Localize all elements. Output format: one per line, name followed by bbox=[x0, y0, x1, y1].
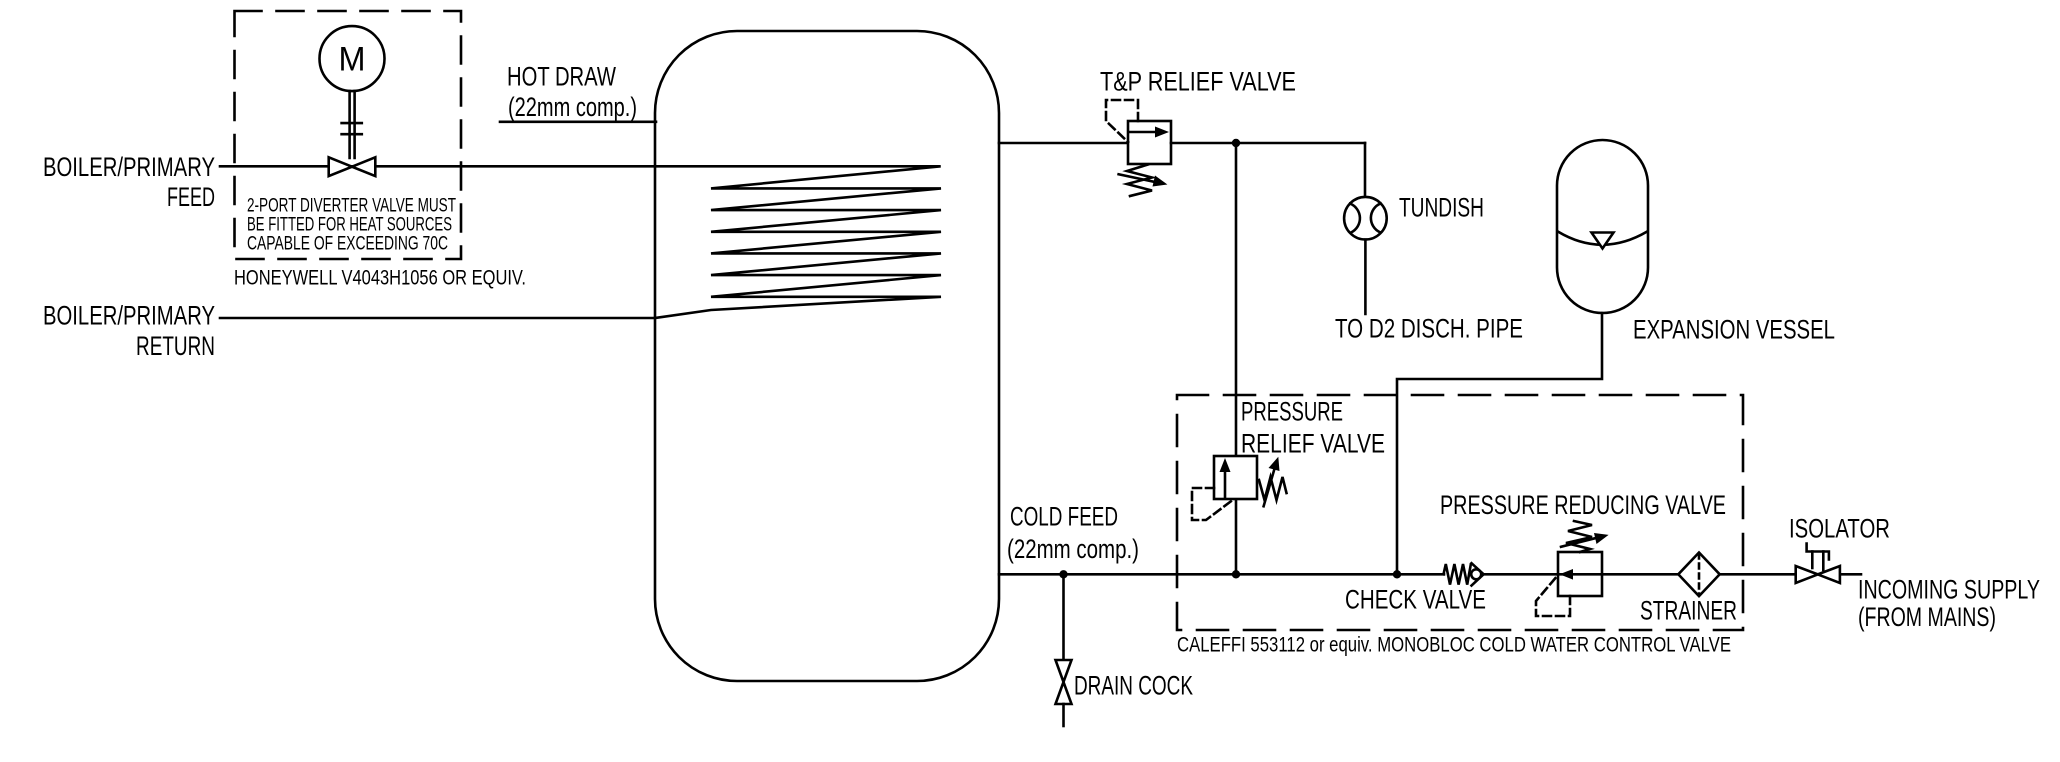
svg-text:BOILER/PRIMARY: BOILER/PRIMARY bbox=[43, 301, 215, 331]
dashed enclosure: CALEFFI monobloc control valve group bbox=[1177, 395, 1743, 630]
svg-text:ISOLATOR: ISOLATOR bbox=[1789, 514, 1890, 544]
svg-text:HONEYWELL V4043H1056 OR EQUIV.: HONEYWELL V4043H1056 OR EQUIV. bbox=[234, 266, 526, 290]
svg-text:2-PORT DIVERTER VALVE MUST: 2-PORT DIVERTER VALVE MUST bbox=[247, 196, 456, 217]
coil heat exchanger inside cylinder bbox=[655, 166, 941, 318]
isolator stem bbox=[1811, 552, 1814, 569]
svg-text:TUNDISH: TUNDISH bbox=[1399, 193, 1484, 223]
T&P spring below bbox=[1127, 165, 1152, 197]
wire: boiler/primary feed line bbox=[220, 165, 655, 168]
PRDV pilot dashed bbox=[1536, 575, 1570, 616]
expansion vessel capsule bbox=[1557, 140, 1648, 313]
wire: boiler/primary return line bbox=[220, 317, 655, 320]
PRV adjuster arrow bbox=[1264, 467, 1275, 506]
strainer diamond bbox=[1678, 553, 1719, 597]
wire: vessel down pipe bbox=[1397, 313, 1602, 574]
hot draw label underline bbox=[500, 121, 656, 124]
svg-text:INCOMING SUPPLY: INCOMING SUPPLY bbox=[1858, 575, 2040, 605]
svg-text:(22mm comp.): (22mm comp.) bbox=[1007, 534, 1139, 564]
svg-text:(FROM MAINS): (FROM MAINS) bbox=[1858, 602, 1996, 632]
check valve seat chevron bbox=[1472, 563, 1484, 585]
svg-text:RETURN: RETURN bbox=[136, 331, 215, 361]
drain cock bowtie vertical bbox=[1056, 660, 1072, 704]
diverter valve bowtie bbox=[329, 157, 376, 176]
PRDV adjuster arrow bbox=[1561, 538, 1598, 547]
valve stem double line bbox=[348, 91, 351, 158]
pressure relief valve box bbox=[1214, 456, 1257, 499]
svg-text:BE FITTED FOR HEAT SOURCES: BE FITTED FOR HEAT SOURCES bbox=[247, 215, 452, 236]
svg-text:CHECK VALVE: CHECK VALVE bbox=[1345, 585, 1486, 615]
svg-text:FEED: FEED bbox=[167, 182, 215, 212]
svg-text:PRESSURE REDUCING VALVE: PRESSURE REDUCING VALVE bbox=[1440, 490, 1726, 520]
svg-text:TO D2 DISCH. PIPE: TO D2 DISCH. PIPE bbox=[1335, 314, 1523, 344]
check valve spring bbox=[1444, 564, 1471, 585]
strainer screen dashed bbox=[1698, 554, 1701, 596]
wire: hot outlet to T&P relief valve bbox=[999, 142, 1128, 145]
svg-text:(22mm comp.): (22mm comp.) bbox=[508, 92, 637, 122]
PRV pilot dashed bbox=[1192, 488, 1234, 520]
wire: cold feed main line bbox=[999, 573, 1444, 576]
T&P arrow inside bbox=[1129, 131, 1160, 134]
svg-text:M: M bbox=[339, 41, 366, 79]
pressure reducing valve box bbox=[1558, 552, 1602, 596]
motor actuator M circle U1 bbox=[320, 26, 385, 91]
T&P adjuster arrow bbox=[1119, 174, 1157, 182]
svg-text:CAPABLE OF EXCEEDING 70C: CAPABLE OF EXCEEDING 70C bbox=[247, 234, 448, 255]
wire: drain drop bbox=[1062, 574, 1065, 660]
node: drain tee bbox=[1059, 570, 1067, 578]
svg-text:DRAIN COCK: DRAIN COCK bbox=[1074, 671, 1193, 701]
wire: drop to tundish bbox=[1364, 143, 1367, 197]
wire: drain stub bbox=[1062, 704, 1065, 726]
node: vessel tee bbox=[1393, 570, 1401, 578]
PRDV internal line and arrow left bbox=[1560, 573, 1602, 576]
svg-text:EXPANSION VESSEL: EXPANSION VESSEL bbox=[1633, 315, 1835, 345]
check valve ball bbox=[1471, 569, 1481, 579]
T&P pilot dashed lines bbox=[1106, 100, 1138, 142]
isolator handle bar bbox=[1807, 544, 1829, 560]
svg-text:COLD FEED: COLD FEED bbox=[1010, 502, 1118, 532]
stem union tick 2 bbox=[342, 133, 362, 136]
svg-text:HOT DRAW: HOT DRAW bbox=[507, 62, 616, 92]
wire: T&P valve to tundish branch bbox=[1171, 142, 1365, 145]
svg-text:RELIEF VALVE: RELIEF VALVE bbox=[1241, 429, 1385, 459]
vessel triangle marker bbox=[1592, 233, 1614, 249]
cylinder (unvented hot water tank) bbox=[655, 31, 999, 681]
stem union tick 1 bbox=[342, 122, 362, 125]
wire: vertical relief pipe bbox=[1235, 143, 1238, 574]
node: relief tee bbox=[1232, 570, 1240, 578]
T&P relief valve box bbox=[1128, 121, 1171, 164]
dashed enclosure: 2-port diverter valve box bbox=[235, 11, 462, 259]
svg-text:BOILER/PRIMARY: BOILER/PRIMARY bbox=[43, 152, 215, 182]
wire: tundish to discharge bbox=[1364, 240, 1367, 315]
tundish symbol bbox=[1344, 197, 1387, 240]
isolator bowtie bbox=[1796, 566, 1840, 583]
svg-text:STRAINER: STRAINER bbox=[1640, 596, 1737, 626]
svg-text:T&P RELIEF VALVE: T&P RELIEF VALVE bbox=[1100, 67, 1296, 97]
PRV arrow up inside bbox=[1224, 467, 1227, 497]
PRDV spring above bbox=[1566, 521, 1592, 552]
vessel diaphragm arc bbox=[1558, 232, 1647, 245]
svg-text:CALEFFI 553112 or equiv. MONOB: CALEFFI 553112 or equiv. MONOBLOC COLD W… bbox=[1177, 633, 1731, 657]
node junction at relief drop bbox=[1232, 139, 1240, 147]
PRV spring right bbox=[1259, 477, 1287, 500]
svg-text:PRESSURE: PRESSURE bbox=[1241, 397, 1343, 427]
